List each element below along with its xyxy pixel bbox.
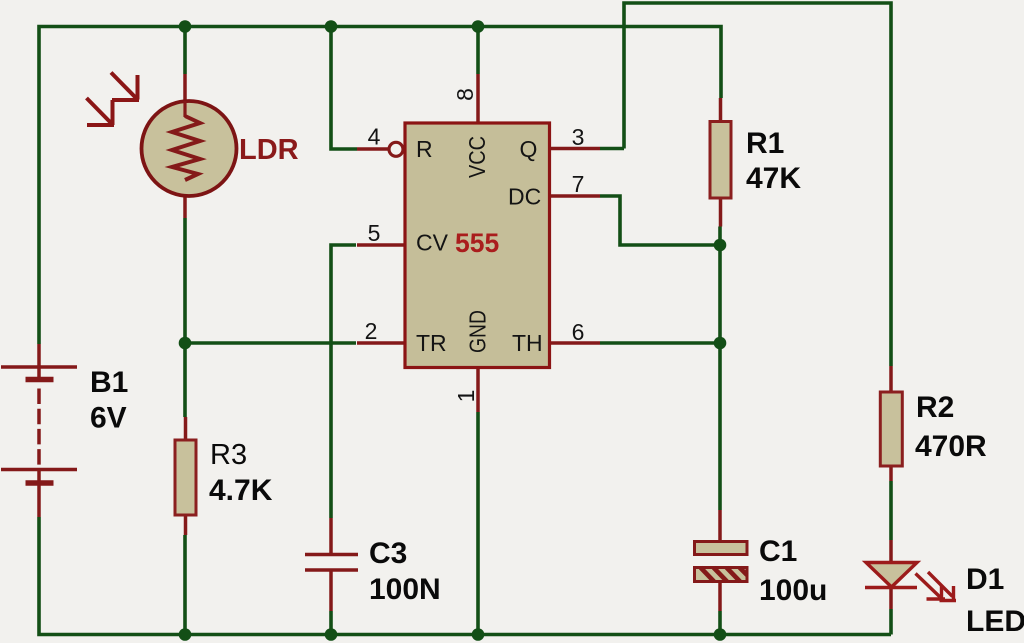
svg-text:C3: C3 [369, 537, 407, 570]
svg-text:6V: 6V [90, 402, 127, 435]
svg-text:C1: C1 [759, 535, 797, 568]
svg-text:100u: 100u [759, 574, 827, 607]
svg-text:VCC: VCC [464, 136, 490, 178]
svg-text:B1: B1 [90, 366, 128, 399]
svg-text:6: 6 [572, 319, 585, 345]
svg-text:D1: D1 [966, 563, 1004, 596]
svg-text:DC: DC [508, 184, 541, 210]
svg-text:CV: CV [416, 230, 449, 256]
svg-text:5: 5 [368, 220, 381, 246]
svg-text:4: 4 [368, 124, 381, 150]
svg-text:GND: GND [465, 310, 491, 353]
svg-text:2: 2 [365, 318, 378, 344]
svg-text:TH: TH [512, 330, 543, 356]
svg-text:1: 1 [453, 390, 479, 403]
svg-text:47K: 47K [746, 162, 801, 195]
svg-text:R3: R3 [210, 439, 247, 471]
svg-text:LED: LED [966, 605, 1024, 638]
svg-text:4.7K: 4.7K [209, 474, 273, 507]
svg-text:470R: 470R [915, 430, 987, 463]
svg-text:R1: R1 [746, 127, 784, 160]
svg-text:555: 555 [455, 228, 499, 258]
svg-text:8: 8 [452, 88, 478, 101]
svg-text:R2: R2 [916, 391, 954, 424]
svg-text:100N: 100N [369, 573, 441, 606]
svg-text:R: R [416, 136, 433, 162]
svg-text:LDR: LDR [239, 134, 299, 166]
svg-text:3: 3 [572, 124, 585, 150]
svg-text:7: 7 [572, 171, 585, 197]
svg-text:TR: TR [416, 330, 447, 356]
svg-text:Q: Q [520, 136, 538, 162]
